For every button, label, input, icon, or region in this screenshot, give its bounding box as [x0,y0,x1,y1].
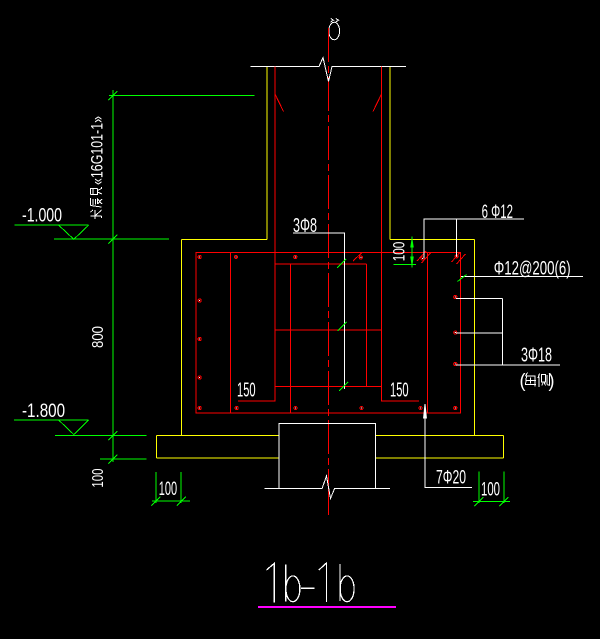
svg-text:7Φ20: 7Φ20 [436,468,466,489]
svg-text:3Φ18: 3Φ18 [521,344,552,367]
glyph chang [91,210,102,219]
svg-text:Φ12@200(6): Φ12@200(6) [494,259,571,280]
svg-text:(: ( [520,371,527,392]
svg-text:100: 100 [90,469,107,488]
label meice (mei-ce) [520,371,555,392]
top break line [251,58,406,82]
svg-text:800: 800 [90,326,107,348]
svg-text:3Φ8: 3Φ8 [293,215,317,237]
footing outline yellow [181,239,474,435]
glyph mei [526,373,537,387]
rebar slashes [353,251,466,264]
ticks on 3phi8 leader [337,259,348,391]
svg-text:-1.000: -1.000 [22,206,62,227]
glyph jian [91,187,103,195]
svg-text:100: 100 [390,242,408,262]
dim 100 right step [394,237,417,268]
rebar cage rect [196,252,461,412]
dim 100 bottom left [152,472,191,506]
leader 6phi12 [424,219,524,259]
column bar right [373,67,419,402]
rebar dots [198,255,458,410]
leader 3phi18 [456,298,560,365]
leader 3phi8 [293,233,344,389]
dim 100 bottom right [473,472,510,506]
svg-text:-1.800: -1.800 [22,401,65,422]
glyph du [91,198,103,207]
svg-text:«16G101-1»: «16G101-1» [88,116,107,185]
dim chain left [54,90,255,464]
svg-text:150: 150 [390,380,409,402]
centerline [327,28,329,515]
vertical note left (chang du jian 16G101-1) [88,116,107,219]
pedestal below with break [265,423,391,498]
leader 7phi20 [424,404,472,488]
svg-text:100: 100 [159,479,177,500]
svg-text:6 Φ12: 6 Φ12 [482,202,513,223]
column bar left [238,67,284,402]
tick phi12at200 [458,275,467,282]
leader phi12at200 [461,275,583,277]
title 1b-1b [267,563,355,603]
svg-text:150: 150 [237,380,256,402]
axis bubble [329,19,340,40]
title underline magenta [258,606,396,608]
base slab yellow [157,436,504,459]
svg-text:100: 100 [481,479,500,500]
glyph ce [538,374,550,388]
elevation -1.000 [14,225,88,239]
elevation -1.800 [14,420,89,435]
column outline yellow [267,67,390,239]
